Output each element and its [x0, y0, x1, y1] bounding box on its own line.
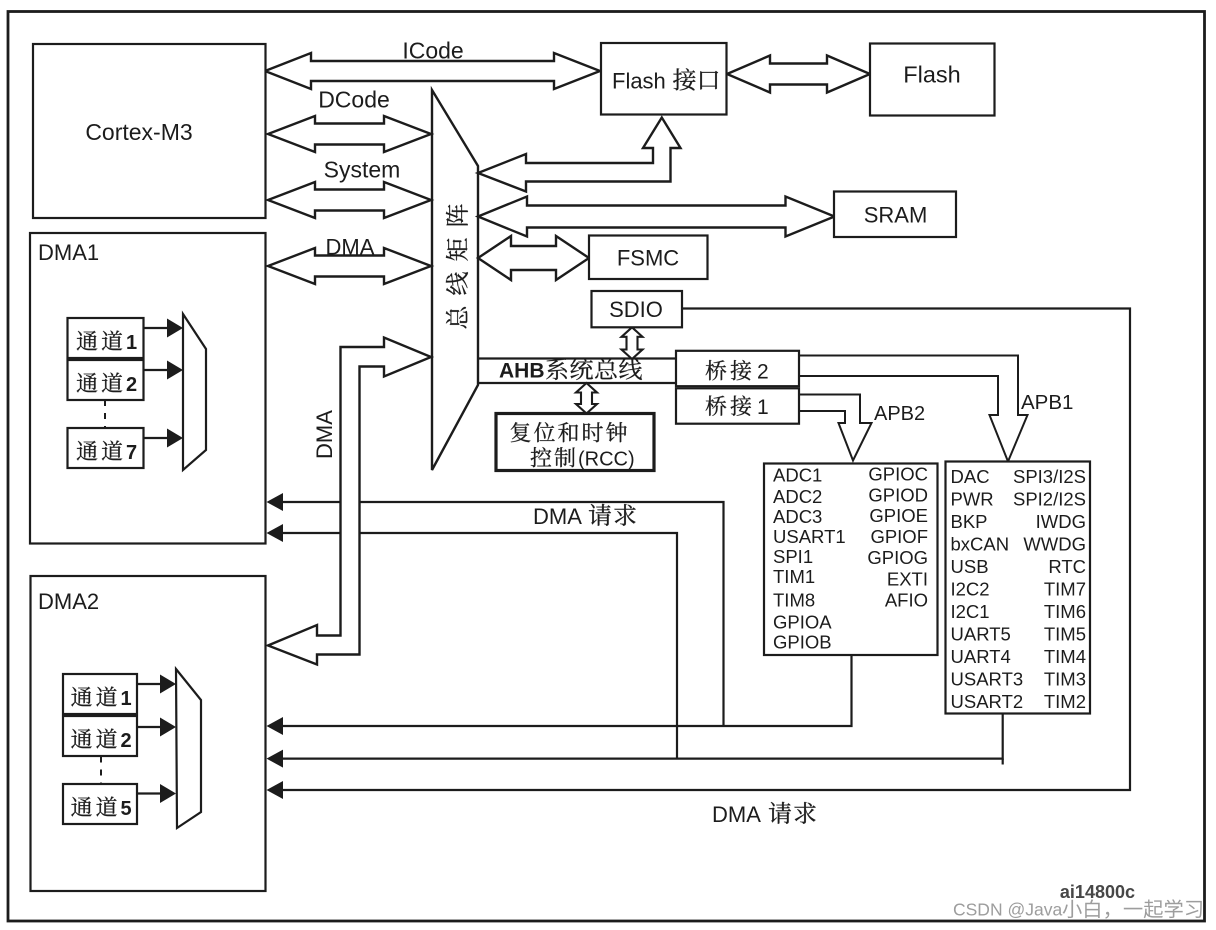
DMA2 to matrix elbow arrow [268, 338, 431, 665]
svg-text:2: 2 [121, 730, 132, 752]
AHB to RCC arrow [576, 383, 597, 414]
svg-text:SPI1: SPI1 [773, 546, 813, 567]
SDIO to AHB arrow [622, 327, 643, 359]
svg-text:GPIOA: GPIOA [773, 611, 832, 632]
svg-text:UART4: UART4 [951, 646, 1011, 667]
svg-text:(RCC): (RCC) [578, 449, 635, 471]
svg-text:2: 2 [757, 361, 769, 384]
svg-text:5: 5 [121, 798, 132, 820]
svg-text:TIM7: TIM7 [1044, 579, 1086, 600]
wire AHB bus upper [478, 357, 676, 359]
DMA2 channel box 通道5 [63, 784, 137, 824]
svg-text:DMA: DMA [712, 802, 761, 827]
svg-text:Flash: Flash [612, 69, 666, 94]
svg-text:GPIOE: GPIOE [869, 505, 928, 526]
Flash interface cjk 接口 [673, 68, 718, 90]
svg-text:EXTI: EXTI [887, 568, 928, 589]
wire branch DMA request to DMA1 #2 [281, 533, 677, 759]
DMA1 box [30, 233, 266, 544]
svg-text:FSMC: FSMC [617, 246, 679, 271]
svg-text:ADC3: ADC3 [773, 506, 822, 527]
Flash interface box Flash 接口 [601, 43, 727, 115]
Bridge2 label cjk [706, 360, 752, 380]
DMA1 channel box 通道7 [68, 428, 144, 468]
wire DMA1 channel to arbiter y=328 [144, 327, 169, 329]
svg-text:DMA1: DMA1 [38, 240, 99, 265]
DMA2 channel box 通道1 [63, 674, 137, 714]
wire stub at junction [1002, 759, 1004, 765]
RCC box 复位和时钟控制 [496, 414, 654, 471]
svg-text:APB1: APB1 [1021, 391, 1073, 414]
DMA1 arbiter trapezoid [183, 314, 206, 470]
svg-text:7: 7 [126, 442, 137, 464]
DMA1 通道7 label [77, 441, 123, 461]
svg-text:TIM3: TIM3 [1044, 669, 1086, 690]
svg-text:USART2: USART2 [951, 691, 1024, 712]
svg-text:DCode: DCode [318, 87, 390, 113]
APB1 bus arrow [799, 356, 1028, 462]
dashed wire DMA2 channels [100, 757, 102, 785]
Flash-interface to matrix elbow arrow [478, 118, 681, 192]
svg-text:BKP: BKP [951, 511, 988, 532]
DMA1 channel box 通道2 [68, 360, 144, 400]
DMA1 通道2 label [77, 373, 123, 393]
svg-text:TIM2: TIM2 [1044, 691, 1086, 712]
wire DMA1 channel to arbiter y=370 [144, 369, 169, 371]
svg-text:IWDG: IWDG [1036, 511, 1086, 532]
svg-text:I2C2: I2C2 [951, 579, 990, 600]
matrix to SRAM arrow [478, 197, 835, 237]
svg-text:1: 1 [121, 688, 132, 710]
svg-text:SPI2/I2S: SPI2/I2S [1013, 489, 1086, 510]
svg-text:SRAM: SRAM [864, 203, 928, 228]
SRAM box [834, 192, 956, 238]
svg-text:CSDN @Java: CSDN @Java [953, 900, 1062, 920]
wire DMA2 channel to arbiter y=727 [137, 726, 161, 728]
APB1 peripherals box [946, 462, 1091, 714]
DMA1 通道1 label [77, 331, 123, 351]
DMA2 通道1 label [71, 687, 117, 707]
DMA2 box [31, 576, 266, 891]
svg-text:TIM8: TIM8 [773, 590, 815, 611]
Bridge1 label cjk [706, 396, 752, 416]
svg-text:USART1: USART1 [773, 526, 846, 547]
svg-text:WWDG: WWDG [1023, 534, 1086, 555]
svg-text:GPIOB: GPIOB [773, 632, 832, 653]
wire AHB bus lower [478, 382, 676, 384]
svg-text:1: 1 [757, 396, 769, 419]
RCC line2 cjk 控制 [531, 447, 575, 467]
wire APB2-periph DMA request to DMA2 [281, 655, 852, 726]
svg-text:PWR: PWR [951, 489, 994, 510]
DMA vertical label [312, 410, 337, 459]
wire DMA1 channel to arbiter y=438 [144, 437, 169, 439]
dashed wire DMA1 channels [104, 400, 106, 428]
svg-text:GPIOD: GPIOD [868, 484, 928, 505]
svg-text:ADC2: ADC2 [773, 486, 822, 507]
Bridge2 box 桥接2 [676, 351, 799, 386]
svg-text:DMA: DMA [533, 504, 582, 529]
AHB bus label cjk 系统总线 [546, 358, 642, 380]
svg-text:System: System [324, 157, 401, 183]
svg-text:RTC: RTC [1048, 556, 1086, 577]
wire branch DMA request to DMA1 #1 [281, 502, 724, 726]
svg-text:TIM6: TIM6 [1044, 601, 1086, 622]
RCC line1 复位和时钟 [511, 422, 627, 442]
svg-text:DMA: DMA [326, 235, 375, 260]
svg-text:AFIO: AFIO [885, 590, 928, 611]
svg-text:DMA2: DMA2 [38, 589, 99, 614]
svg-text:1: 1 [126, 332, 137, 354]
svg-text:DMA: DMA [312, 410, 337, 459]
wire DMA2 channel to arbiter y=684 [137, 683, 161, 685]
SDIO box [592, 291, 683, 327]
svg-text:TIM1: TIM1 [773, 566, 815, 587]
wire SDIO to DMA2 request [281, 309, 1130, 791]
DMA2 channel box 通道2 [63, 716, 137, 756]
svg-text:I2C1: I2C1 [951, 601, 990, 622]
svg-text:UART5: UART5 [951, 624, 1011, 645]
FSMC box [589, 236, 708, 280]
Flash interface to Flash arrow [727, 56, 870, 93]
DCode bus arrow [268, 116, 431, 152]
svg-text:TIM5: TIM5 [1044, 624, 1086, 645]
APB2 peripherals box [764, 464, 938, 656]
DMA2 通道5 label [71, 797, 117, 817]
svg-text:2: 2 [126, 374, 137, 396]
svg-text:USART3: USART3 [951, 669, 1024, 690]
Flash box [870, 44, 995, 116]
wire DMA2 channel to arbiter y=793.5 [137, 792, 161, 794]
svg-text:GPIOC: GPIOC [868, 463, 928, 484]
svg-text:SDIO: SDIO [609, 297, 663, 322]
bus matrix trapezoid [432, 90, 478, 470]
svg-text:ICode: ICode [402, 38, 463, 64]
System bus arrow [268, 182, 431, 218]
svg-text:SPI3/I2S: SPI3/I2S [1013, 466, 1086, 487]
svg-text:ai14800c: ai14800c [1060, 882, 1135, 902]
svg-text:GPIOF: GPIOF [870, 526, 928, 547]
svg-text:USB: USB [951, 556, 989, 577]
Bridge1 box 桥接1 [676, 388, 799, 423]
svg-text:bxCAN: bxCAN [951, 534, 1010, 555]
DMA request label 2 cjk 请求 [769, 802, 816, 824]
matrix to FSMC arrow [478, 236, 589, 280]
ICode bus arrow [265, 53, 600, 89]
svg-text:TIM4: TIM4 [1044, 646, 1086, 667]
DMA1 channel box 通道1 [68, 318, 144, 358]
svg-text:Cortex-M3: Cortex-M3 [85, 119, 192, 145]
svg-text:APB2: APB2 [874, 403, 925, 425]
DMA bus arrow (DMA1 to matrix) [268, 248, 431, 284]
bus matrix label 总线矩阵 (rotated) [446, 204, 468, 328]
svg-text:ADC1: ADC1 [773, 465, 822, 486]
svg-text:DAC: DAC [951, 466, 990, 487]
svg-text:AHB: AHB [499, 360, 545, 383]
APB2 bus arrow [799, 395, 872, 461]
wire APB1-periph DMA request to DMA2 [281, 714, 1003, 759]
Cortex-M3 box [33, 44, 266, 218]
DMA request label 1 cjk 请求 [589, 504, 636, 526]
svg-text:GPIOG: GPIOG [867, 547, 928, 568]
svg-text:Flash: Flash [903, 62, 960, 88]
DMA2 通道2 label [71, 729, 117, 749]
DMA2 arbiter trapezoid [176, 669, 201, 828]
